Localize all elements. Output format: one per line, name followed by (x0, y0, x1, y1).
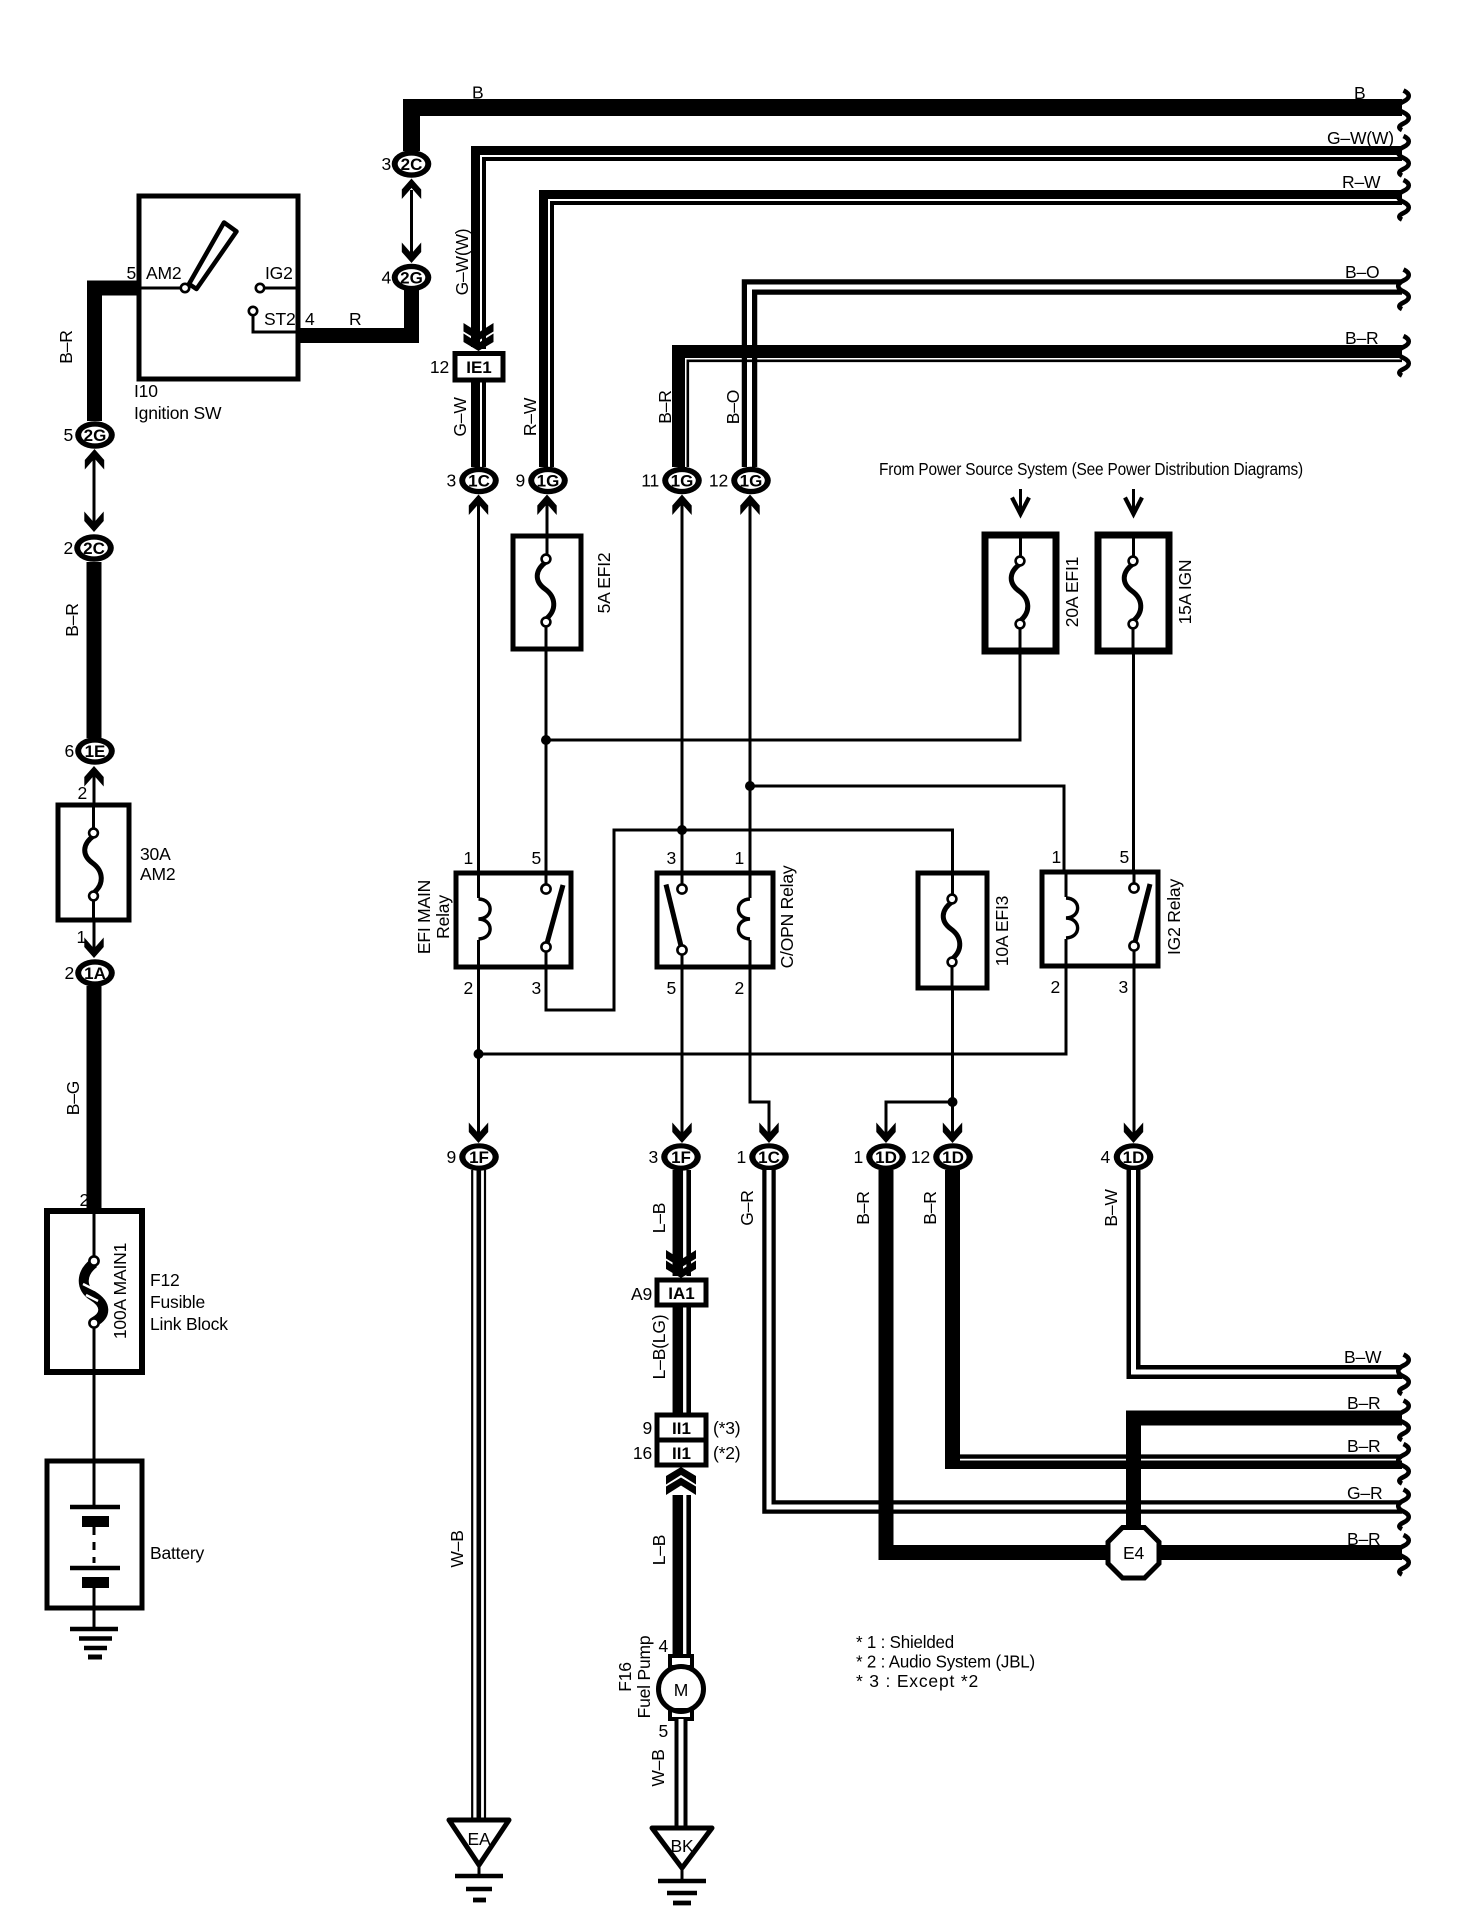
svg-text:1D: 1D (1123, 1148, 1145, 1167)
IG2 pin wire (264, 287, 296, 290)
svg-text:G–W(W): G–W(W) (452, 229, 472, 296)
fuse 10A EFI3 (918, 873, 987, 988)
connector 2G pin 5 (75, 421, 115, 449)
svg-text:1: 1 (853, 1147, 863, 1167)
svg-text:B–R: B–R (655, 390, 675, 423)
svg-text:* 3 : Except *2: * 3 : Except *2 (856, 1671, 978, 1691)
svg-text:II1: II1 (672, 1419, 691, 1438)
svg-text:Battery: Battery (150, 1543, 204, 1563)
wire EFI MAIN pin 2 down to 1F-9 (477, 967, 480, 1139)
relay IG2 box (1042, 872, 1158, 966)
svg-text:5: 5 (658, 1721, 668, 1741)
svg-text:II1: II1 (672, 1444, 691, 1463)
svg-text:1C: 1C (468, 472, 490, 491)
svg-text:Fusible: Fusible (150, 1292, 205, 1312)
svg-text:9: 9 (642, 1418, 652, 1438)
continuation symbol G-R (1398, 1490, 1409, 1530)
fuse 15A IGN (1098, 535, 1169, 651)
svg-text:EA: EA (468, 1829, 491, 1849)
ST2 pin wire (253, 315, 296, 332)
connector IE1 (pin 12) (455, 354, 503, 381)
wire 10A EFI3 down to 1D-12 (951, 988, 954, 1139)
svg-text:2: 2 (734, 978, 744, 998)
svg-text:20A EFI1: 20A EFI1 (1062, 557, 1082, 627)
connector 1D pin 4 (1114, 1143, 1154, 1171)
arrow into 1E bottom (84, 766, 103, 787)
wire B-G thick from 1A-2 to fusible link block (87, 986, 102, 1211)
inline arrow pair between 2G-5 and 2C-2 (84, 449, 104, 532)
svg-text:1A: 1A (84, 964, 106, 983)
svg-text:16: 16 (633, 1443, 652, 1463)
svg-text:9: 9 (515, 471, 525, 491)
svg-text:3: 3 (1118, 977, 1128, 997)
svg-text:M: M (674, 1680, 688, 1700)
arrow into 1G-12 bottom + tail to C/OPN pin 1 (740, 495, 759, 874)
fuse 20A EFI1 (985, 535, 1056, 651)
wire L-B heavy from 1F-3 down to IA1 (678, 1170, 689, 1276)
svg-text:B–R: B–R (1347, 1393, 1380, 1413)
wire B-O : from right edge down to connector 1G-12, hollow style (750, 287, 1403, 467)
continuation symbol wire B (1398, 91, 1409, 131)
junction at 5A EFI2 / 20A EFI1 tie (541, 735, 551, 745)
wire IG2 pin 3 down to 1D-4 (1133, 966, 1136, 1139)
svg-text:9: 9 (446, 1147, 456, 1167)
continuation symbol wire G-W(W) (1398, 136, 1409, 176)
svg-text:2: 2 (463, 978, 473, 998)
svg-text:B–O: B–O (723, 390, 743, 424)
label F12 Fusible Link Block (150, 1270, 228, 1334)
arrow into 1D-12 (943, 1123, 962, 1144)
ground below battery (70, 1608, 118, 1657)
fuse 5A EFI2 (513, 536, 581, 649)
arrow into fuse 15A IGN (1125, 489, 1142, 514)
connector 2G pin 4 (392, 264, 432, 292)
svg-text:15A IGN: 15A IGN (1175, 560, 1195, 625)
wire B-R heavy from E4 up and right to edge (1134, 1418, 1403, 1527)
connector 1F pin 9 (459, 1143, 499, 1171)
svg-text:I10: I10 (134, 381, 158, 401)
svg-text:L–B: L–B (649, 1535, 669, 1566)
svg-text:1G: 1G (740, 472, 763, 491)
fusible link block F12 box (47, 1211, 142, 1372)
connector 1D pin 12 (933, 1143, 973, 1171)
continuation symbol B-R third (1398, 1444, 1409, 1484)
junction on 10A EFI3 run (948, 1097, 958, 1107)
fuse 30A AM2 box (58, 805, 129, 920)
svg-text:ST2: ST2 (264, 309, 296, 329)
svg-text:R–W: R–W (1342, 172, 1381, 192)
svg-text:IA1: IA1 (668, 1284, 694, 1303)
svg-text:3: 3 (446, 471, 456, 491)
connector 1E pin 6 (75, 737, 115, 765)
svg-text:IG2 Relay: IG2 Relay (1164, 879, 1184, 955)
continuation symbol wire B-R (1398, 336, 1409, 376)
arrow into 1A top (84, 938, 103, 959)
arrow into 1G-9 bottom + tail to fuse EFI2 (537, 495, 556, 537)
label 30A AM2 (140, 844, 175, 884)
svg-text:B–R: B–R (920, 1191, 940, 1224)
svg-text:1C: 1C (758, 1148, 780, 1167)
svg-text:B–R: B–R (62, 603, 82, 636)
wire B-R : from right edge down to connector 1G-11, heavy with slit (679, 352, 1403, 468)
relay C/OPN box (657, 873, 773, 967)
svg-text:C/OPN Relay: C/OPN Relay (777, 865, 797, 968)
svg-text:L–B(LG): L–B(LG) (649, 1315, 669, 1380)
svg-text:B–R: B–R (853, 1191, 873, 1224)
svg-text:G–R: G–R (737, 1190, 757, 1225)
svg-text:AM2: AM2 (140, 864, 175, 884)
wire R : thick from ST2 pin to connector 2G-4 (296, 290, 412, 336)
junction on 1G-11 run (677, 825, 687, 835)
svg-text:1D: 1D (875, 1148, 897, 1167)
EFI MAIN coil (pins 1-2) (479, 873, 491, 967)
continuation symbol wire B-O (1398, 270, 1409, 310)
wire junction branch to 1D-1 (886, 1102, 953, 1139)
contact ST2 (249, 307, 257, 315)
svg-text:1: 1 (736, 1147, 746, 1167)
relay EFI MAIN box (456, 873, 571, 967)
ignition switch pivot contact AM2 (181, 284, 189, 292)
svg-text:IE1: IE1 (466, 358, 492, 377)
svg-text:10A EFI3: 10A EFI3 (992, 896, 1012, 966)
svg-text:1G: 1G (537, 472, 560, 491)
ground EA (449, 1820, 509, 1900)
ignition switch I10 box (139, 196, 298, 379)
arrow into 1C-1 (759, 1123, 778, 1144)
wire C/OPN pin 2 down to 1C-1 (750, 967, 769, 1139)
wire F12 to battery, thin (93, 1372, 96, 1461)
svg-text:G–R: G–R (1347, 1483, 1382, 1503)
svg-text:B: B (1354, 83, 1365, 103)
svg-text:1D: 1D (942, 1148, 964, 1167)
svg-text:B–G: B–G (63, 1081, 83, 1115)
svg-text:12: 12 (709, 471, 728, 491)
fuel pump F16 motor (659, 1656, 704, 1719)
svg-text:1E: 1E (85, 742, 106, 761)
svg-text:AM2: AM2 (146, 263, 181, 283)
svg-text:3: 3 (648, 1147, 658, 1167)
wire W-B triple from 1F-9 to ground EA (472, 1170, 485, 1820)
wire L-B(LG) heavy from IA1 to II1 (678, 1305, 689, 1415)
svg-text:30A: 30A (140, 844, 171, 864)
wire B-R heavy from 1D-1 through E4 to right edge (886, 1170, 1402, 1553)
wire junction to IG2 relay pin 1 (750, 786, 1064, 872)
svg-text:2G: 2G (84, 426, 107, 445)
wire G-R hollow from 1C-1 to right edge (769, 1170, 1402, 1507)
svg-text:R–W: R–W (520, 397, 540, 436)
svg-text:R: R (349, 309, 361, 329)
svg-text:4: 4 (381, 268, 391, 288)
label I10 / Ignition SW (134, 381, 222, 423)
double chevron up into II1 bottom (666, 1467, 696, 1495)
double chevron arrow into IE1 (464, 323, 494, 351)
svg-text:Ignition SW: Ignition SW (134, 403, 222, 423)
svg-text:From Power Source System (See: From Power Source System (See Power Dist… (879, 459, 1303, 479)
connector IA1 (pin A9) (657, 1280, 706, 1305)
wire B-R thick from 2C-2 to 1E-6 (87, 562, 102, 738)
connector 2C pin 2 (74, 534, 114, 562)
double chevron into IA1 (666, 1250, 696, 1278)
svg-text:4: 4 (658, 1636, 668, 1656)
arrow into 1D-1 (876, 1123, 895, 1144)
arrow into 1G-11 bottom + tail to C/OPN pin 3 (672, 495, 691, 874)
wire B-W hollow from 1D-4 to right edge (1134, 1170, 1403, 1372)
svg-text:2C: 2C (401, 155, 423, 174)
svg-text:5: 5 (531, 848, 541, 868)
svg-text:3: 3 (531, 978, 541, 998)
svg-text:(*2): (*2) (713, 1443, 740, 1463)
svg-text:* 1 : Shielded: * 1 : Shielded (856, 1632, 954, 1652)
ground point connector E4 octagon (1108, 1528, 1159, 1579)
connector 1D pin 1 (866, 1143, 906, 1171)
svg-text:3: 3 (666, 848, 676, 868)
svg-text:5: 5 (63, 425, 73, 445)
svg-text:1: 1 (734, 848, 744, 868)
svg-text:2: 2 (63, 538, 73, 558)
svg-text:2: 2 (64, 963, 74, 983)
wire EFI MAIN pin 3 loop to 10A EFI3 (546, 830, 953, 1010)
wire B : thick battery wire from connector 2C-3 corner to right edge (412, 108, 1403, 152)
svg-text:2C: 2C (83, 539, 105, 558)
wire C/OPN pin 5 down to 1F-3 (681, 967, 684, 1139)
junction on 1G-12 run (745, 781, 755, 791)
svg-text:B–O: B–O (1345, 262, 1379, 282)
svg-text:B–R: B–R (1345, 328, 1378, 348)
wire W-B hollow from pump to ground BK (675, 1719, 688, 1828)
IG2 pin numbers (1050, 847, 1129, 997)
svg-text:1F: 1F (469, 1148, 489, 1167)
svg-text:W–B: W–B (447, 1530, 467, 1567)
svg-text:6: 6 (64, 741, 74, 761)
svg-text:1: 1 (1051, 847, 1061, 867)
pin 5 AM2 labels (126, 263, 181, 283)
wire R-W : from right edge down to connector 1G-9, hollow heavy style (544, 195, 1403, 468)
svg-text:IG2: IG2 (265, 263, 293, 283)
svg-text:12: 12 (911, 1147, 930, 1167)
svg-text:1F: 1F (671, 1148, 691, 1167)
svg-text:2: 2 (79, 1190, 89, 1210)
svg-text:F12: F12 (150, 1270, 180, 1290)
arrow into 1C-3 bottom + tail (469, 495, 488, 874)
wire G-W(W) : from right edge to IE1 connector, hollow heavy style (476, 151, 1403, 350)
svg-text:G–W: G–W (450, 397, 470, 437)
svg-text:W–B: W–B (648, 1749, 668, 1786)
wire G-W from IE1 to connector 1C-3, hollow heavy (476, 381, 485, 467)
svg-text:B–R: B–R (1347, 1529, 1380, 1549)
svg-text:5A EFI2: 5A EFI2 (594, 553, 614, 614)
EFI MAIN pin numbers (463, 848, 541, 998)
IG2 switch (pins 5-3) (1129, 872, 1150, 966)
C/OPN switch (pins 3-5) (666, 873, 687, 967)
arrow into 1F-9 (469, 1123, 488, 1144)
EFI MAIN switch (pins 5-3) (541, 873, 563, 967)
arrow into 1D-4 (1124, 1123, 1143, 1144)
svg-text:A9: A9 (631, 1284, 652, 1304)
svg-text:2G: 2G (400, 269, 423, 288)
svg-text:* 2 : Audio System (JBL): * 2 : Audio System (JBL) (856, 1652, 1035, 1672)
svg-text:3: 3 (381, 154, 391, 174)
AM2 pin wire inside box (141, 287, 181, 290)
connector 1C pin 3 (459, 467, 499, 495)
connector 1A pin 2 (75, 959, 115, 987)
svg-text:B–W: B–W (1101, 1189, 1121, 1227)
svg-text:G–W(W): G–W(W) (1327, 128, 1394, 148)
wire B-R heavy from 1D-12 to right edge (945, 1170, 1402, 1469)
junction on EFI MAIN pin 2 run (474, 1049, 484, 1059)
svg-text:12: 12 (430, 357, 449, 377)
connector 1C pin 1 (749, 1143, 789, 1171)
svg-text:Link Block: Link Block (150, 1314, 228, 1334)
inline arrow pair between 2C-3 and 2G-4 (402, 179, 421, 264)
wire B-R from AM2 pin to connector 2G-5, thick (95, 288, 142, 421)
svg-text:100A MAIN1: 100A MAIN1 (110, 1243, 130, 1339)
svg-text:E4: E4 (1123, 1543, 1144, 1563)
contact IG2 (256, 284, 264, 292)
battery box (47, 1461, 142, 1608)
svg-text:L–B: L–B (649, 1203, 669, 1234)
arrow into fuse 20A EFI1 (1012, 489, 1029, 514)
wire 5A EFI2 to EFI MAIN relay pin 5 (545, 649, 548, 873)
svg-text:2: 2 (77, 783, 87, 803)
svg-text:11: 11 (641, 471, 659, 491)
wire 20A EFI1 to junction, thin (546, 651, 1020, 740)
connector II1 pin 16 (657, 1440, 706, 1465)
svg-text:5: 5 (126, 263, 136, 283)
continuation symbol wire R-W (1398, 180, 1409, 220)
svg-text:(*3): (*3) (713, 1418, 740, 1438)
connector 2C pin 3 (392, 150, 432, 178)
svg-text:4: 4 (1100, 1147, 1110, 1167)
svg-text:B–W: B–W (1344, 1347, 1382, 1367)
svg-text:2: 2 (1050, 977, 1060, 997)
wire 15A IGN down to IG2 relay pin 5 (1132, 651, 1135, 872)
connector II1 pin 9 (657, 1415, 706, 1440)
continuation symbol B-R bottom (1398, 1535, 1409, 1575)
connector 1F pin 3 (661, 1143, 701, 1171)
svg-text:5: 5 (666, 978, 676, 998)
wire junction to IG2 relay pin 2 (479, 966, 1067, 1054)
ignition switch lever (189, 223, 237, 290)
continuation symbol B-R second (1398, 1401, 1409, 1441)
svg-text:BK: BK (671, 1836, 694, 1856)
IG2 coil (pins 1-2) (1066, 872, 1078, 966)
continuation symbol B-W (1398, 1355, 1409, 1395)
connector 1G pin 11 (662, 467, 702, 495)
svg-text:1: 1 (463, 848, 473, 868)
svg-text:B: B (472, 83, 483, 103)
C/OPN coil (pins 1-2) (738, 873, 750, 967)
wire from 1E to fuse AM2, thin (93, 770, 96, 805)
C/OPN pin numbers (666, 848, 744, 998)
arrow into 1F-3 (672, 1123, 691, 1144)
svg-text:1G: 1G (671, 472, 694, 491)
wire fuse to 1A, thin (93, 920, 96, 952)
connector 1G pin 9 (528, 467, 568, 495)
svg-text:B–R: B–R (56, 330, 76, 363)
svg-text:5: 5 (1119, 847, 1129, 867)
ground BK (652, 1828, 712, 1903)
svg-text:B–R: B–R (1347, 1436, 1380, 1456)
connector 1G pin 12 (731, 467, 771, 495)
svg-text:4: 4 (305, 309, 315, 329)
wire L-B heavy from II1 to fuel pump (678, 1495, 689, 1657)
